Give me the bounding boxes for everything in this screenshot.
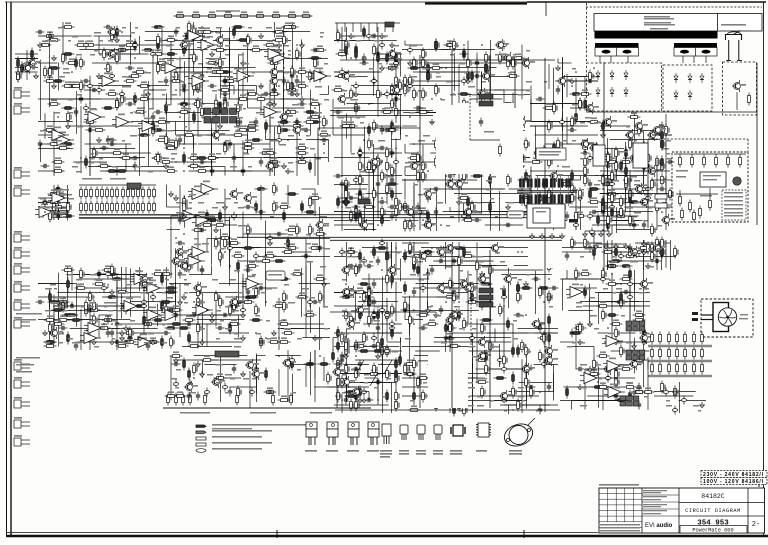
ground [97, 137, 102, 143]
capacitor C32 [90, 88, 99, 92]
resistor R306 [170, 323, 183, 326]
label [266, 338, 271, 340]
wire [169, 283, 191, 285]
resistor R433 [345, 188, 350, 201]
wire [467, 271, 469, 324]
capacitor C108 [246, 288, 250, 297]
capacitor C190 [361, 257, 366, 266]
resistor R197 [48, 189, 61, 195]
resistor R109 [192, 99, 205, 105]
resistor R368 [183, 201, 188, 214]
node [391, 49, 393, 51]
resistor R177 [224, 142, 229, 155]
resistor R354 [283, 291, 288, 304]
resistor R175 [116, 98, 121, 111]
wire [198, 314, 239, 316]
resistor R100 [242, 139, 255, 145]
wire [337, 373, 401, 375]
label [450, 216, 454, 218]
ground [286, 168, 291, 174]
label [288, 54, 291, 56]
wire [395, 282, 397, 322]
capacitor C30 [262, 92, 271, 96]
op-amp U19 [80, 330, 101, 344]
resistor R538 [507, 57, 512, 70]
label [392, 126, 399, 128]
resistor R470 [377, 340, 382, 353]
node [62, 301, 64, 303]
capacitor C168 [380, 347, 384, 356]
resistor R397 [395, 57, 400, 70]
label [220, 256, 223, 258]
wire [481, 72, 483, 95]
transistor Q4 [265, 160, 279, 172]
wire [405, 220, 419, 222]
node [278, 121, 280, 123]
resistor R568 [453, 147, 458, 160]
resistor R148 [165, 134, 170, 147]
resistor R375 [386, 63, 399, 69]
resistor R142 [157, 152, 162, 165]
label [207, 45, 211, 47]
wire [292, 22, 294, 70]
wire [167, 323, 222, 325]
capacitor C61 [213, 131, 218, 140]
wire [53, 185, 55, 220]
ground [38, 42, 43, 48]
resistor R202 [52, 309, 65, 312]
wire [504, 404, 549, 406]
wire [6, 2, 8, 537]
resistor R324 [214, 220, 227, 226]
resistor R121 [152, 26, 165, 29]
wire [534, 364, 558, 366]
label [508, 202, 514, 204]
wire [402, 179, 428, 181]
node [453, 93, 455, 95]
wire [40, 60, 42, 120]
wire [143, 286, 145, 335]
label [90, 153, 94, 155]
capacitor C178 [358, 262, 362, 271]
node [206, 309, 208, 311]
label [342, 90, 347, 92]
label [50, 284, 56, 286]
resistor R390 [345, 183, 348, 196]
capacitor C155 [389, 50, 394, 59]
label [238, 207, 244, 209]
wire [184, 61, 186, 100]
label [40, 198, 44, 200]
capacitor C29 [133, 162, 137, 171]
wire [62, 22, 64, 64]
resistor R187 [278, 124, 283, 137]
wire [265, 221, 267, 262]
capacitor C181 [389, 324, 394, 333]
node [197, 305, 199, 307]
wire [171, 215, 185, 217]
wire [306, 139, 329, 141]
resistor R389 [377, 52, 380, 65]
wire [341, 184, 343, 231]
wire [334, 292, 371, 294]
wire [58, 188, 60, 220]
resistor R271 [101, 201, 104, 214]
wire [208, 76, 232, 78]
wire [314, 189, 316, 216]
node [377, 314, 379, 316]
resistor R78 [178, 103, 191, 106]
label [288, 234, 293, 236]
resistor R41 [39, 40, 52, 46]
wire [71, 267, 73, 291]
resistor R361 [283, 300, 288, 313]
node [413, 143, 415, 145]
wire [449, 207, 451, 212]
capacitor C195 [434, 208, 438, 217]
transistor Q1 [211, 129, 225, 141]
capacitor C78 [162, 331, 171, 335]
wire [319, 307, 321, 350]
capacitor C175 [374, 380, 383, 384]
wire [116, 278, 118, 350]
label [472, 94, 477, 96]
node [179, 116, 181, 118]
resistor R284 [137, 187, 140, 200]
capacitor C64 [119, 90, 124, 99]
wire [405, 152, 419, 154]
node [355, 355, 357, 357]
resistor R105 [165, 53, 178, 56]
label [58, 135, 64, 137]
capacitor C51 [104, 25, 113, 29]
wire [500, 404, 558, 406]
resistor R436 [373, 44, 378, 57]
wire [419, 62, 469, 64]
wire [333, 134, 365, 136]
capacitor C192 [491, 115, 500, 119]
wire [197, 282, 199, 349]
wire [189, 341, 242, 343]
resistor R583 [449, 142, 454, 155]
resistor R417 [395, 75, 400, 88]
wire [157, 304, 159, 327]
wire [763, 2, 765, 537]
resistor R25 [237, 125, 250, 131]
wire [454, 193, 491, 195]
capacitor C88 [97, 270, 101, 279]
label [130, 112, 133, 114]
node [80, 157, 82, 159]
node [440, 98, 442, 100]
wire [347, 103, 374, 105]
capacitor C75 [95, 272, 104, 276]
resistor R405 [399, 201, 404, 214]
ground [218, 123, 223, 129]
label [99, 279, 103, 281]
resistor R254 [80, 268, 85, 281]
label [216, 58, 222, 60]
ground [182, 101, 187, 107]
node [201, 26, 203, 28]
node [206, 71, 208, 73]
wire [49, 292, 51, 347]
wire [425, 2, 527, 4]
label [482, 153, 489, 155]
label [459, 63, 465, 65]
capacitor C117 [302, 254, 311, 258]
resistor R15 [260, 148, 273, 154]
wire [413, 185, 415, 221]
resistor R221 [116, 287, 129, 293]
transistor Q7 [107, 48, 121, 60]
resistor R46 [62, 22, 75, 28]
node [481, 44, 483, 46]
wire [358, 301, 398, 303]
op-amp U18 [35, 204, 56, 218]
label [153, 310, 158, 312]
resistor R348 [309, 196, 314, 209]
label [500, 54, 503, 56]
resistor R49 [309, 121, 322, 124]
wire [170, 49, 172, 96]
label [58, 27, 63, 29]
label [112, 54, 116, 56]
label [346, 256, 350, 258]
resistor R34 [268, 89, 281, 95]
wire [89, 303, 91, 350]
capacitor C156 [379, 41, 384, 50]
connector J14 [14, 417, 30, 428]
resistor R407 [363, 26, 366, 39]
ground [408, 60, 413, 66]
resistor R163 [103, 48, 108, 61]
wire [41, 143, 73, 145]
resistor R40 [250, 45, 263, 51]
label [279, 45, 282, 47]
capacitor C210 [432, 187, 441, 191]
label [50, 212, 54, 214]
wire [197, 319, 245, 321]
node [431, 121, 433, 123]
wire [391, 121, 393, 158]
label [16, 357, 40, 359]
ground [313, 335, 318, 341]
wire [188, 30, 190, 86]
capacitor C215 [407, 46, 412, 55]
resistor R338 [197, 296, 202, 309]
resistor R327 [206, 219, 219, 222]
wire [333, 337, 338, 339]
resistor R342 [215, 237, 220, 250]
resistor R524 [485, 62, 490, 75]
label [112, 338, 115, 340]
label [90, 274, 97, 276]
resistor R528 [417, 152, 422, 165]
resistor R357 [188, 332, 191, 345]
capacitor C48 [108, 138, 117, 142]
resistor R536 [422, 160, 427, 173]
resistor R136 [175, 138, 180, 151]
wire [427, 268, 429, 307]
resistor R31 [273, 35, 286, 41]
resistor R204 [134, 305, 147, 308]
resistor R30 [309, 112, 322, 118]
resistor R77 [134, 67, 147, 73]
label [234, 68, 241, 70]
capacitor C63 [109, 72, 114, 81]
transistor Q50 [454, 178, 468, 190]
wire [204, 67, 256, 69]
wire [170, 226, 172, 278]
capacitor C133 [392, 97, 401, 101]
resistor R364 [247, 224, 252, 237]
capacitor C69 [285, 108, 290, 117]
node [363, 139, 365, 141]
resistor R286 [142, 187, 145, 200]
node [476, 165, 478, 167]
label [104, 306, 107, 308]
wire [463, 203, 465, 217]
wire [274, 22, 276, 38]
node [44, 211, 46, 213]
resistor R424 [368, 124, 371, 137]
wire [229, 221, 231, 248]
wire [116, 288, 118, 324]
resistor R510 [502, 103, 515, 106]
wire [175, 282, 177, 321]
transistor Q46 [481, 70, 495, 82]
capacitor C19 [290, 72, 294, 81]
node [431, 98, 433, 100]
wire [378, 364, 401, 366]
capacitor C8 [288, 92, 297, 96]
resistor R55 [246, 125, 259, 131]
wire [98, 310, 163, 312]
label [495, 112, 500, 114]
resistor R114 [318, 130, 331, 136]
resistor R384 [377, 156, 382, 169]
resistor R326 [228, 319, 241, 325]
label [369, 36, 373, 38]
resistor R245 [161, 300, 164, 313]
wire [163, 58, 198, 60]
op-amp U12 [233, 68, 254, 82]
label [382, 36, 386, 38]
resistor R280 [127, 187, 130, 200]
resistor R60 [48, 99, 61, 105]
wire [334, 157, 370, 159]
label [176, 261, 182, 263]
resistor R502 [458, 93, 471, 96]
resistor R50 [52, 157, 65, 163]
node [165, 278, 167, 280]
label [360, 122, 364, 124]
resistor R146 [323, 116, 328, 129]
resistor R9 [300, 11, 313, 17]
resistor R83 [264, 40, 277, 46]
wire [98, 36, 100, 54]
connector J11 [14, 359, 30, 370]
wire [509, 188, 532, 190]
wire [89, 102, 91, 176]
wire [489, 76, 510, 78]
capacitor C105 [167, 308, 176, 312]
wire [58, 63, 60, 91]
node [345, 283, 347, 285]
label [112, 320, 116, 322]
label [256, 261, 262, 263]
label [526, 176, 531, 178]
capacitor C41 [38, 140, 42, 149]
resistor R481 [386, 250, 391, 263]
wire [238, 315, 240, 338]
capacitor C139 [390, 149, 394, 158]
resistor R572 [467, 196, 470, 209]
wire [413, 71, 469, 73]
wire [402, 296, 459, 298]
node [183, 233, 185, 235]
wire [184, 99, 186, 144]
resistor R159 [291, 66, 296, 79]
resistor R255 [85, 300, 90, 313]
capacitor C212 [426, 194, 430, 203]
resistor R526 [427, 70, 432, 83]
resistor R356 [197, 322, 202, 335]
label [302, 288, 309, 290]
resistor R183 [165, 102, 168, 115]
resistor R73 [116, 45, 129, 51]
wire [341, 193, 343, 220]
wire [458, 65, 460, 125]
label [184, 108, 188, 110]
wire [157, 53, 159, 73]
transistor Q6 [279, 111, 293, 123]
capacitor C184 [339, 248, 344, 257]
label [351, 99, 358, 101]
resistor R259 [161, 336, 164, 349]
label [423, 68, 429, 70]
capacitor C21 [164, 77, 168, 86]
label [284, 243, 288, 245]
wire [341, 120, 343, 178]
op-amp U27 [242, 276, 263, 290]
label [261, 189, 265, 191]
label [16, 313, 42, 315]
capacitor C93 [141, 302, 146, 311]
resistor R278 [122, 187, 125, 200]
node [175, 89, 177, 91]
resistor R115 [138, 81, 151, 87]
wire [514, 265, 548, 267]
node [255, 332, 257, 334]
label [90, 306, 94, 308]
node [301, 206, 303, 208]
label [418, 194, 423, 196]
wire [436, 122, 438, 145]
wire [402, 386, 465, 388]
resistor R173 [80, 80, 85, 93]
resistor R555 [449, 138, 454, 151]
capacitor C49 [223, 77, 227, 86]
wire [215, 304, 217, 327]
resistor R544 [471, 201, 476, 214]
capacitor C86 [146, 342, 150, 351]
capacitor C220 [407, 82, 412, 91]
label [396, 252, 400, 254]
transistor Q13 [139, 273, 153, 285]
node [377, 399, 379, 401]
